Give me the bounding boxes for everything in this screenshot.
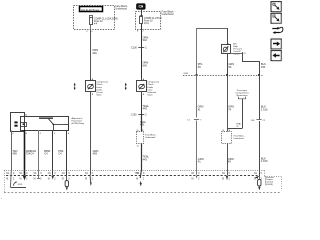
svg-text:M: M bbox=[6, 178, 8, 180]
svg-text:150: 150 bbox=[261, 65, 266, 69]
svg-text:Hot At All Times: Hot At All Times bbox=[81, 8, 100, 12]
svg-text:Fuse Block -: Fuse Block - bbox=[234, 135, 245, 137]
svg-text:Valve: Valve bbox=[147, 95, 153, 97]
svg-text:C4: C4 bbox=[58, 152, 62, 156]
svg-text:342: 342 bbox=[143, 38, 148, 42]
svg-text:G103: G103 bbox=[18, 184, 23, 186]
svg-text:M: M bbox=[48, 178, 50, 180]
svg-text:Valve: Valve bbox=[96, 95, 102, 97]
svg-text:Fuse Block -: Fuse Block - bbox=[116, 6, 129, 8]
svg-text:Underhood: Underhood bbox=[234, 138, 244, 140]
svg-text:443: 443 bbox=[143, 157, 148, 161]
svg-text:6: 6 bbox=[92, 31, 93, 33]
svg-text:(Case): (Case) bbox=[96, 92, 103, 94]
svg-text:C2: C2 bbox=[243, 53, 245, 55]
svg-text:Underhood: Underhood bbox=[145, 137, 155, 139]
svg-text:Diode: Diode bbox=[147, 87, 153, 89]
svg-text:459: 459 bbox=[12, 152, 17, 156]
svg-text:M: M bbox=[85, 178, 87, 180]
svg-text:M: M bbox=[20, 178, 22, 180]
svg-text:459: 459 bbox=[93, 152, 98, 156]
svg-text:41: 41 bbox=[137, 130, 139, 132]
svg-text:Case: Case bbox=[147, 89, 153, 91]
svg-text:C4: C4 bbox=[44, 152, 48, 156]
svg-text:(ECM) Relay: (ECM) Relay bbox=[72, 123, 85, 125]
svg-text:M: M bbox=[254, 178, 256, 180]
svg-text:2 150: 2 150 bbox=[261, 107, 268, 111]
svg-text:Underhood: Underhood bbox=[162, 13, 174, 16]
svg-text:High: High bbox=[233, 46, 238, 48]
svg-text:C100: C100 bbox=[131, 114, 137, 117]
svg-text:M: M bbox=[222, 178, 224, 180]
svg-text:440: 440 bbox=[92, 51, 97, 55]
svg-text:41: 41 bbox=[222, 130, 224, 132]
svg-text:M: M bbox=[192, 178, 194, 180]
svg-text:2 150: 2 150 bbox=[261, 159, 268, 163]
svg-text:S103: S103 bbox=[184, 73, 188, 75]
svg-text:M: M bbox=[62, 178, 64, 180]
svg-text:k: k bbox=[1, 198, 2, 200]
svg-text:443: 443 bbox=[143, 107, 148, 111]
svg-text:31: 31 bbox=[137, 145, 139, 147]
svg-text:(G109): (G109) bbox=[266, 184, 273, 186]
svg-text:443: 443 bbox=[140, 124, 145, 127]
svg-text:30: 30 bbox=[25, 115, 27, 117]
svg-text:C4: C4 bbox=[30, 152, 34, 156]
svg-text:C100: C100 bbox=[131, 47, 137, 50]
svg-text:542: 542 bbox=[143, 63, 148, 67]
svg-text:M: M bbox=[34, 178, 36, 180]
svg-text:2: 2 bbox=[143, 31, 144, 33]
svg-text:Fuse Block -: Fuse Block - bbox=[145, 134, 156, 136]
svg-text:10 A: 10 A bbox=[144, 22, 149, 25]
svg-text:Diode: Diode bbox=[96, 89, 102, 91]
svg-text:14G: 14G bbox=[251, 120, 255, 122]
svg-text:Solenoid: Solenoid bbox=[147, 92, 156, 94]
svg-text:M: M bbox=[136, 178, 138, 180]
